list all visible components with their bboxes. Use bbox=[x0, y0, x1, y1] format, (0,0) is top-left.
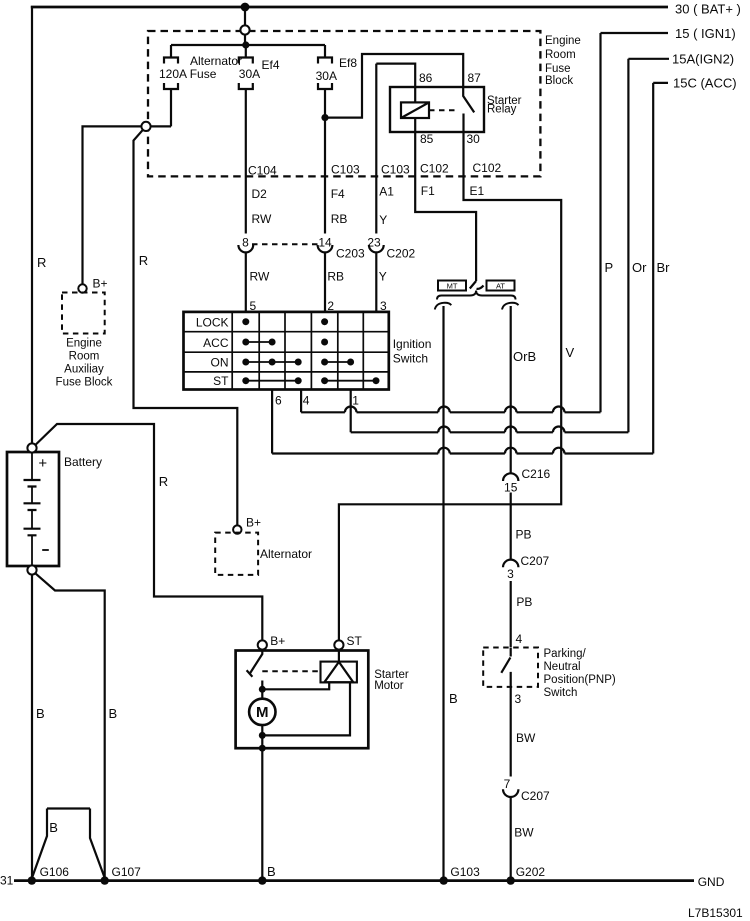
svg-text:Alternator: Alternator bbox=[190, 54, 242, 68]
svg-text:4: 4 bbox=[303, 394, 310, 408]
svg-text:30 ( BAT+ ): 30 ( BAT+ ) bbox=[675, 2, 741, 17]
svg-text:Br: Br bbox=[657, 260, 671, 275]
svg-text:Switch: Switch bbox=[393, 352, 428, 366]
svg-text:86: 86 bbox=[419, 71, 433, 85]
svg-text:F4: F4 bbox=[331, 187, 345, 201]
svg-text:Y: Y bbox=[379, 213, 387, 227]
svg-text:C103: C103 bbox=[381, 163, 410, 177]
svg-text:23: 23 bbox=[367, 236, 381, 250]
svg-text:Neutral: Neutral bbox=[544, 661, 581, 673]
svg-text:Position(PNP): Position(PNP) bbox=[544, 674, 616, 686]
svg-text:Ef8: Ef8 bbox=[339, 56, 357, 70]
svg-text:C202: C202 bbox=[387, 247, 416, 261]
svg-text:Room: Room bbox=[545, 49, 576, 61]
svg-text:15C (ACC): 15C (ACC) bbox=[673, 76, 737, 91]
svg-text:G202: G202 bbox=[516, 865, 546, 879]
svg-text:G103: G103 bbox=[450, 865, 480, 879]
svg-text:F1: F1 bbox=[421, 184, 435, 198]
svg-text:3: 3 bbox=[507, 567, 514, 581]
svg-text:R: R bbox=[37, 255, 46, 270]
svg-text:Switch: Switch bbox=[544, 687, 578, 699]
svg-text:G106: G106 bbox=[40, 865, 70, 879]
svg-text:7: 7 bbox=[504, 777, 511, 791]
svg-text:85: 85 bbox=[420, 132, 434, 146]
svg-text:Parking/: Parking/ bbox=[544, 648, 587, 660]
svg-text:30: 30 bbox=[467, 132, 481, 146]
svg-text:8: 8 bbox=[242, 236, 249, 250]
svg-text:A1: A1 bbox=[379, 185, 394, 199]
svg-text:AT: AT bbox=[496, 282, 505, 291]
svg-text:RB: RB bbox=[327, 270, 344, 284]
svg-text:D2: D2 bbox=[252, 187, 268, 201]
svg-text:15: 15 bbox=[504, 481, 518, 495]
svg-text:Ignition: Ignition bbox=[393, 337, 432, 351]
svg-text:R: R bbox=[139, 253, 148, 268]
svg-text:BW: BW bbox=[514, 826, 534, 840]
svg-text:PB: PB bbox=[516, 595, 532, 609]
svg-text:B: B bbox=[449, 691, 458, 706]
svg-text:C216: C216 bbox=[522, 467, 551, 481]
svg-text:14: 14 bbox=[318, 236, 332, 250]
svg-text:RW: RW bbox=[252, 212, 272, 226]
svg-text:3: 3 bbox=[380, 299, 387, 313]
svg-text:C203: C203 bbox=[336, 247, 365, 261]
svg-text:MT: MT bbox=[447, 282, 458, 291]
svg-text:Battery: Battery bbox=[64, 455, 102, 469]
svg-text:GND: GND bbox=[698, 875, 725, 889]
svg-text:C103: C103 bbox=[331, 163, 360, 177]
svg-text:30A: 30A bbox=[239, 67, 260, 81]
svg-text:5: 5 bbox=[250, 299, 257, 313]
svg-text:C207: C207 bbox=[521, 789, 550, 803]
svg-text:Engine: Engine bbox=[66, 338, 102, 350]
svg-text:B: B bbox=[267, 864, 276, 879]
svg-text:1: 1 bbox=[352, 394, 359, 408]
svg-text:RW: RW bbox=[250, 270, 270, 284]
svg-text:B: B bbox=[109, 706, 118, 721]
svg-text:C207: C207 bbox=[521, 554, 550, 568]
svg-text:Fuse: Fuse bbox=[545, 63, 571, 75]
svg-text:B: B bbox=[49, 820, 58, 835]
svg-text:B+: B+ bbox=[246, 516, 261, 530]
svg-text:6: 6 bbox=[275, 394, 282, 408]
svg-text:B+: B+ bbox=[270, 634, 285, 648]
svg-text:M: M bbox=[256, 704, 269, 721]
svg-text:B: B bbox=[36, 706, 45, 721]
svg-text:Block: Block bbox=[545, 75, 573, 87]
svg-text:BW: BW bbox=[516, 731, 536, 745]
svg-text:OrB: OrB bbox=[513, 349, 536, 364]
svg-text:C104: C104 bbox=[248, 164, 277, 178]
svg-text:Motor: Motor bbox=[374, 680, 404, 692]
svg-text:4: 4 bbox=[516, 632, 523, 646]
svg-text:L7B15301: L7B15301 bbox=[688, 906, 743, 920]
svg-text:15 ( IGN1): 15 ( IGN1) bbox=[675, 26, 736, 41]
svg-text:B+: B+ bbox=[93, 277, 108, 291]
svg-text:Relay: Relay bbox=[487, 104, 517, 116]
svg-text:PB: PB bbox=[516, 528, 532, 542]
svg-text:Fuse Block: Fuse Block bbox=[56, 377, 113, 389]
svg-text:Or: Or bbox=[632, 260, 647, 275]
svg-text:Engine: Engine bbox=[545, 35, 581, 47]
svg-text:V: V bbox=[566, 345, 575, 360]
svg-text:15A(IGN2): 15A(IGN2) bbox=[672, 52, 734, 67]
svg-text:RB: RB bbox=[331, 212, 348, 226]
svg-text:ST: ST bbox=[213, 374, 229, 388]
svg-text:C102: C102 bbox=[420, 162, 449, 176]
svg-text:P: P bbox=[605, 260, 614, 275]
svg-text:2: 2 bbox=[327, 299, 334, 313]
svg-text:Auxiliay: Auxiliay bbox=[64, 364, 104, 376]
svg-text:120A Fuse: 120A Fuse bbox=[159, 67, 217, 81]
svg-text:G107: G107 bbox=[112, 865, 142, 879]
svg-text:87: 87 bbox=[468, 71, 482, 85]
svg-text:30A: 30A bbox=[316, 69, 337, 83]
svg-text:Alternator: Alternator bbox=[260, 547, 312, 561]
svg-text:31: 31 bbox=[0, 874, 14, 888]
svg-text:Room: Room bbox=[69, 351, 100, 363]
svg-text:ST: ST bbox=[347, 634, 363, 648]
svg-text:+: + bbox=[38, 455, 47, 472]
svg-text:R: R bbox=[159, 474, 168, 489]
svg-text:Ef4: Ef4 bbox=[262, 58, 280, 72]
svg-text:3: 3 bbox=[515, 692, 522, 706]
svg-text:ACC: ACC bbox=[203, 336, 229, 350]
svg-text:C102: C102 bbox=[473, 161, 502, 175]
svg-text:ON: ON bbox=[211, 356, 229, 370]
svg-text:LOCK: LOCK bbox=[196, 316, 229, 330]
svg-text:E1: E1 bbox=[470, 184, 485, 198]
svg-text:Y: Y bbox=[379, 270, 387, 284]
